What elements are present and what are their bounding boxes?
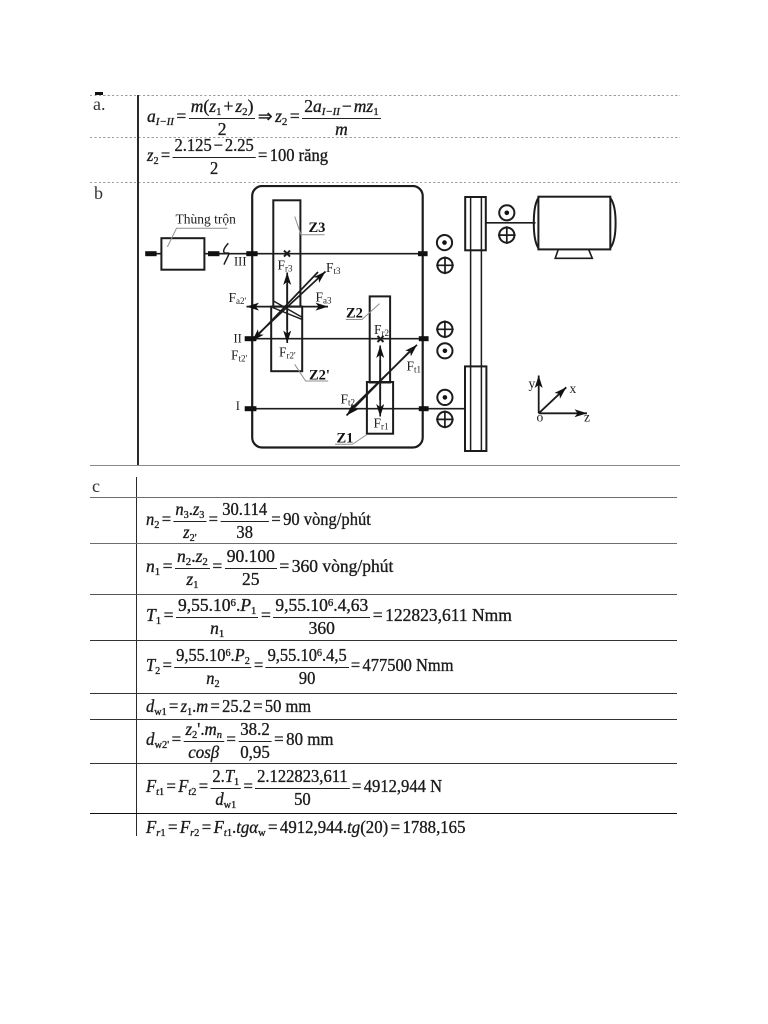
shaft III stub dash left: [145, 251, 156, 256]
svg-text:z: z: [584, 410, 590, 425]
pulley top: [465, 197, 486, 250]
x mark shaft II: [378, 336, 384, 342]
svg-text:Ft1: Ft1: [407, 359, 422, 375]
svg-text:II: II: [234, 331, 242, 345]
pulley bottom: [465, 366, 486, 451]
motor body: [538, 197, 610, 250]
formula a row 1: [147, 98, 381, 138]
c row 6 : dw2': [146, 720, 340, 762]
svg-text:Fr3: Fr3: [278, 258, 294, 274]
svg-text:Fr1: Fr1: [374, 416, 389, 432]
svg-text:Thùng trộn: Thùng trộn: [176, 211, 237, 226]
solid separator below diagram: [90, 465, 680, 466]
shaft I line: [252, 408, 465, 410]
svg-text:III: III: [234, 254, 247, 268]
motor stand: [555, 249, 592, 258]
bearing tick shaft II right wall: [419, 336, 429, 341]
plus-circle motor: [498, 226, 516, 244]
bearing tick shaft III left wall: [246, 251, 257, 256]
tangential arrow Ft2 diagonal: [347, 349, 413, 416]
svg-text:I: I: [236, 399, 240, 413]
leader Z2: [346, 304, 380, 320]
motor shaft: [486, 222, 536, 224]
DIAGRAM SVG: [130, 185, 680, 470]
c row 4 : T2: [146, 642, 473, 692]
section label a.: [93, 94, 106, 115]
tangential arrow Ft1 diagonal: [350, 345, 417, 410]
shaft III line left of box: [146, 253, 253, 255]
plus-circle shaft I: [436, 411, 454, 429]
svg-text:Z3: Z3: [309, 220, 326, 236]
svg-text:Fr2: Fr2: [374, 322, 389, 338]
bearing tick shaft II left wall: [245, 336, 257, 341]
gear Z2': [271, 307, 302, 372]
gear Z3: [273, 200, 300, 306]
gear Z1: [367, 382, 393, 434]
radial force pair Fr2/Fr1 vertical double arrow: [379, 360, 381, 400]
vertical line section c: [136, 477, 137, 836]
plus-circle shaft III: [436, 257, 454, 275]
c row 2 : n1: [146, 545, 393, 591]
bearing tick shaft I left wall: [245, 406, 257, 411]
dot-circle shaft III: [437, 235, 452, 250]
bearing tick shaft I right wall: [419, 406, 429, 411]
c row 8 : Fr1: [146, 814, 479, 840]
dashed separator 1: [90, 95, 680, 96]
thung tron box: [161, 238, 204, 270]
tangential arrow Ft3 diagonal: [256, 272, 326, 337]
gearbox housing: [252, 186, 423, 448]
svg-text:Ft3: Ft3: [326, 260, 341, 276]
svg-text:x: x: [570, 381, 577, 396]
dot-circle motor: [499, 205, 514, 220]
gear Z2: [370, 296, 390, 382]
leader Z3: [295, 217, 325, 235]
c table rules: [90, 497, 677, 498]
shaft II line: [252, 338, 423, 340]
axial force arrows Fa2' / Fa3: [247, 306, 286, 308]
helical mesh hatch: [273, 301, 304, 320]
thung tron leader: [167, 228, 227, 247]
shaft break squiggle: [224, 243, 229, 264]
svg-text:Fr2': Fr2': [279, 345, 296, 361]
dot-circle shaft II: [437, 343, 452, 358]
dashed separator 3: [90, 182, 680, 183]
dot-circle shaft I: [437, 390, 452, 405]
leader Z2': [295, 364, 329, 381]
section label c: [92, 476, 100, 497]
svg-text:o: o: [537, 410, 544, 425]
formula a row 2: [147, 138, 339, 176]
shaft III dash right of drum: [208, 251, 219, 256]
leader Z1: [335, 435, 367, 445]
dashed separator 2: [90, 137, 680, 138]
section label b: [94, 183, 103, 204]
shaft III line inside box: [252, 253, 423, 255]
c row 1 : n2: [146, 499, 384, 543]
x mark shaft III: [284, 251, 290, 257]
svg-text:Ft2: Ft2: [341, 392, 356, 408]
c row 5 : dw1: [146, 694, 322, 718]
vertical line section a/b: [137, 95, 139, 465]
tiny dash artifact top: [95, 92, 103, 94]
radial force pair Fr3/Fr2' vertical double arrow: [286, 284, 288, 330]
bearing tick shaft III right wall: [418, 251, 428, 256]
plus-circle shaft II: [436, 321, 454, 339]
svg-text:y: y: [529, 376, 536, 391]
motor right cap: [610, 198, 615, 248]
svg-text:Fa3: Fa3: [316, 290, 333, 306]
c row 7 : Ft1: [146, 765, 458, 811]
coordinate axes: [529, 376, 591, 425]
motor left cap: [534, 198, 539, 248]
belt lines: [471, 197, 482, 451]
svg-text:Ft2': Ft2': [231, 348, 248, 364]
tangential arrow Ft2' diagonal: [252, 272, 318, 341]
svg-text:Fa2': Fa2': [229, 290, 247, 306]
c row 3 : T1: [146, 595, 512, 639]
